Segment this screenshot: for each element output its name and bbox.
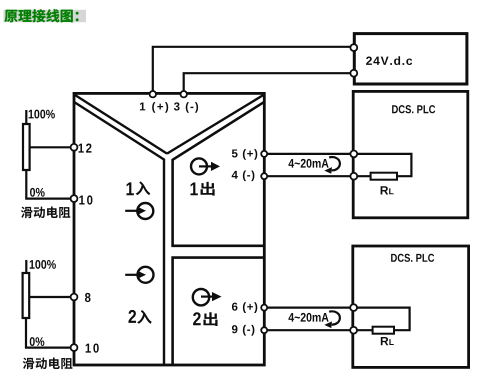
- label 4~20mA output 1: [288, 159, 328, 168]
- output symbol channel 1: [191, 158, 207, 174]
- wire terminal6 to DCS2: [264, 307, 353, 309]
- rheostat R2 wiper wire to terminal 8: [29, 296, 74, 298]
- terminal 9 (-): [261, 327, 267, 333]
- label 1入: [126, 182, 133, 195]
- resistor RL1 label: [381, 186, 389, 194]
- DCS2 terminal lower: [350, 327, 357, 334]
- terminal 6 (+): [261, 305, 267, 311]
- DCS2 terminal upper: [350, 304, 357, 311]
- 24V.d.c supply box: [354, 34, 467, 84]
- title 原理接线图: [4, 9, 87, 22]
- rheostat R2 bottom lead and wire to terminal 10: [26, 318, 74, 348]
- DCS PLC label 2: [391, 254, 434, 262]
- label 滑动电阻 upper: [21, 207, 32, 218]
- load loop 1 wiring: [354, 154, 412, 176]
- terminal 12: [71, 144, 78, 151]
- label 2出: [193, 312, 201, 325]
- resistor RL1: [371, 173, 397, 180]
- rheostat R1 wiper wire to terminal 12: [30, 146, 74, 148]
- input symbol channel 1: [125, 210, 138, 212]
- resistor RL2: [373, 327, 394, 334]
- label 1出: [190, 183, 197, 196]
- wire terminal4 to DCS1: [264, 175, 354, 177]
- 24V.d.c label: [366, 56, 412, 65]
- 24V terminal upper: [350, 44, 357, 51]
- DCS PLC label 1: [392, 105, 435, 113]
- rheostat R2 body: [23, 273, 30, 318]
- wire terminal1 to 24V supply: [153, 47, 354, 93]
- load loop 2 wiring: [354, 308, 410, 331]
- rheostat R1 bottom lead and wire to terminal 10: [26, 170, 74, 199]
- label 滑动电阻 lower: [23, 358, 34, 369]
- rheostat R2 top lead: [25, 260, 27, 273]
- DCS PLC box 2: [353, 246, 469, 367]
- DCS PLC box 1: [353, 91, 468, 217]
- wire terminal3 to 24V supply: [184, 73, 354, 93]
- terminal 1 (+): [150, 91, 156, 97]
- output box 2 border (top, left): [173, 258, 264, 365]
- label 2入: [128, 310, 136, 323]
- divider upper-left diagonal: [75, 95, 167, 154]
- 24V terminal lower: [350, 70, 357, 77]
- wire terminal9 to DCS2: [264, 329, 353, 331]
- terminal 3 (-): [181, 91, 187, 97]
- terminal 5 (+): [261, 151, 267, 157]
- divider upper-right diagonal: [167, 95, 263, 154]
- label 4~20mA output 2: [288, 313, 328, 322]
- input symbol channel 2: [125, 274, 138, 276]
- label 100% lower: [30, 260, 56, 269]
- rheostat R1 body: [23, 124, 30, 170]
- DCS1 terminal upper: [350, 151, 357, 158]
- terminal 10 lower: [71, 344, 78, 351]
- terminal 10 upper: [71, 195, 78, 202]
- divider lower-left diagonal and stem left: [75, 102, 165, 364]
- wire terminal5 to DCS1: [264, 153, 354, 155]
- terminal 4 (-): [261, 173, 267, 179]
- label 100% upper: [29, 110, 55, 119]
- DCS1 terminal lower: [350, 173, 357, 180]
- resistor RL2 label: [381, 337, 389, 345]
- output symbol channel 2: [193, 289, 209, 305]
- label 0% lower: [30, 337, 45, 346]
- isolator block outline: [74, 93, 264, 365]
- label 0% upper: [30, 188, 45, 197]
- output box 1 border (lower-right diagonal, left, bottom): [173, 102, 264, 246]
- terminal 8: [71, 294, 78, 301]
- rheostat R1 top lead: [25, 110, 27, 124]
